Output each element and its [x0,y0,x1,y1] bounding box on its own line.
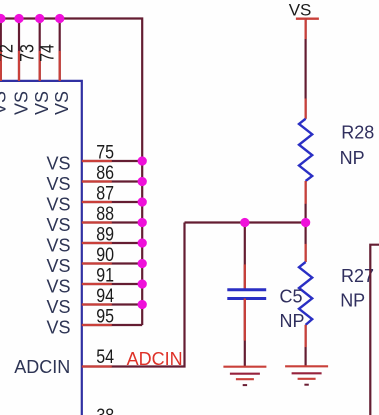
svg-text:VS: VS [46,256,70,276]
svg-text:VS: VS [46,215,70,235]
pin 71 red stub (cut) [0,51,2,81]
node R28/R27 junction [301,218,310,227]
node at pin 71 (edge) [0,14,5,23]
svg-text:VS: VS [46,297,70,317]
pin 86 of IC wire [82,180,142,182]
svg-text:VS: VS [46,236,70,256]
pin 74 of IC (top, vertical) [59,19,61,81]
pin name VS of pin 94 [46,297,70,317]
svg-text:ADCIN: ADCIN [14,357,70,377]
C5 reference label [280,287,303,307]
svg-text:VS: VS [46,174,70,194]
svg-text:72: 72 [0,44,18,62]
node at pin 72 [14,14,23,23]
pin 91 of IC wire [82,283,142,285]
wire: node down to R27 [305,223,307,263]
svg-text:VS: VS [0,91,10,115]
pin name VS of pin 91 [46,277,70,297]
node at pin 91 [138,279,147,288]
svg-text:VS: VS [46,154,70,174]
R28 value label NP [340,148,365,168]
pin 89 of IC wire [82,242,142,244]
pin 87 of IC wire [82,201,142,203]
pin name VS of pin 74 (rotated) [52,91,72,115]
pin name VS of pin 89 [46,236,70,256]
pin 88 of IC wire [82,221,142,223]
pin name VS of pin 90 [46,256,70,276]
pin 54 ADCIN wire, runs right then up to node [82,223,185,367]
node at pin 75 [138,156,147,165]
node ADCIN/C5 junction [240,218,249,227]
C5 value label NP [280,311,305,331]
wire: net entering from right edge down to bottom (to off-sheet part) [370,245,379,415]
pin name VS of pin 71 (rotated, cut at edge) [0,91,10,115]
svg-text:87: 87 [96,182,114,204]
svg-text:94: 94 [96,285,114,307]
pin number 91 [96,264,114,286]
pin number 88 [96,203,114,225]
pin number 72 (rotated) [0,44,18,62]
wire: R27 bottom to ground [305,325,307,366]
pin name VS of pin 86 [46,174,70,194]
node at pin 87 [138,197,147,206]
svg-text:VS: VS [289,1,312,20]
R28 reference label [341,122,374,142]
svg-text:NP: NP [340,291,365,311]
svg-text:VS: VS [52,91,72,115]
svg-text:VS: VS [46,277,70,297]
pin number 90 [96,244,114,266]
net label ADCIN (red) [127,349,183,369]
pin number 95 [96,305,114,327]
pin number 54 [96,346,114,368]
svg-text:R27: R27 [341,266,374,286]
svg-text:54: 54 [96,346,114,368]
svg-text:NP: NP [340,148,365,168]
svg-text:ADCIN: ADCIN [127,349,183,369]
pin 90 of IC wire [82,262,142,264]
svg-text:73: 73 [16,44,38,62]
IC U? body outline (top and right edges) [0,81,82,415]
pin name VS of pin 75 [46,154,70,174]
wire: node down to C5 [244,223,246,290]
pin number 94 [96,285,114,307]
pin number 89 [96,223,114,245]
wire: VS down to R28 [305,19,307,119]
pin 72 of IC (top, vertical) [18,19,20,81]
R27 value label NP [340,291,365,311]
node at pin 86 [138,177,147,186]
svg-text:89: 89 [96,223,114,245]
pin name VS of pin 88 [46,215,70,235]
VS power symbol (bar) top right [296,18,319,20]
svg-text:74: 74 [36,44,58,62]
pin name VS of pin 72 (rotated) [12,91,32,115]
svg-text:VS: VS [32,91,52,115]
svg-text:C5: C5 [280,287,303,307]
resistor R28 zigzag [299,119,312,181]
wire: top horizontal VS net with vertical bus down to pin 95 [0,19,142,326]
R27 reference label [341,266,374,286]
wire: R28 bottom to node [305,181,307,223]
node at pin 94 [138,300,147,309]
node at pin 90 [138,259,147,268]
svg-text:90: 90 [96,244,114,266]
pin name VS of pin 73 (rotated) [32,91,52,115]
svg-text:R28: R28 [341,122,374,142]
VS power net label [289,1,312,20]
svg-text:91: 91 [96,264,114,286]
node at pin 74 [55,14,64,23]
ground symbol under C5 [223,367,266,385]
svg-text:75: 75 [96,141,114,163]
pin number 75 [96,141,114,163]
node at pin 73 [35,14,44,23]
pin number 73 (rotated) [16,44,38,62]
svg-text:88: 88 [96,203,114,225]
pin name VS of pin 95 [46,318,70,338]
svg-text:NP: NP [280,311,305,331]
wire: top pin 71 vertical (cut at left edge) [0,19,2,81]
pin name ADCIN of pin 54 [14,357,70,377]
pin name VS of pin 87 [46,195,70,215]
pin number 38 (cut at bottom) [96,405,114,415]
svg-text:86: 86 [96,162,114,184]
svg-text:38: 38 [96,405,114,415]
junction node dots on VS bus [0,14,310,309]
pin 75 of IC (right side) wire to bus [82,160,142,162]
pin 95 of IC wire [82,324,142,326]
resistor R27 zigzag [299,262,312,325]
ground symbol under R27 [285,366,328,384]
pin number 86 [96,162,114,184]
node at pin 89 [138,238,147,247]
pin 94 of IC wire [82,303,142,305]
svg-text:VS: VS [12,91,32,115]
pin 73 of IC (top, vertical) [39,19,41,81]
wire: ADCIN horizontal net to R28/R27/C5 [185,221,306,223]
svg-text:VS: VS [46,318,70,338]
svg-text:95: 95 [96,305,114,327]
capacitor C5 plates [227,290,266,299]
svg-text:VS: VS [46,195,70,215]
node at pin 88 [138,218,147,227]
pin number 87 [96,182,114,204]
wire: C5 bottom to ground [244,299,246,367]
pin number 74 (rotated) [36,44,58,62]
